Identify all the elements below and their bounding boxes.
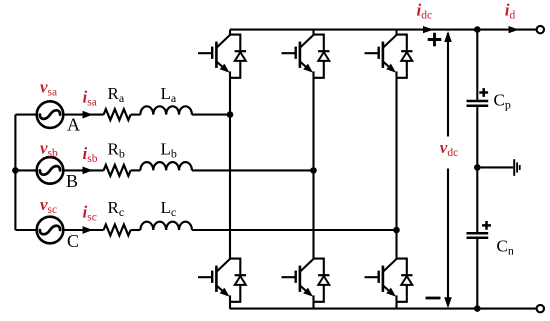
capacitor Cp (467, 101, 489, 106)
IGBT lower leg B with antiparallel diode (282, 259, 330, 302)
AC source Vsc circle (37, 217, 64, 244)
vdc arrow line lower (447, 169, 449, 307)
wire bus to source B (15, 169, 36, 171)
svg-text:Lb: Lb (161, 140, 177, 161)
wire Ra to La (131, 114, 141, 116)
ground (513, 159, 515, 176)
leg A mid stem (229, 78, 231, 259)
wire midpoint to Cn (476, 167, 478, 232)
wire top rail to Cp (476, 30, 478, 100)
svg-text:isc: isc (83, 203, 97, 224)
wire Cn to bottom rail (476, 239, 478, 309)
AC source Vsb circle (37, 157, 64, 184)
svg-text:A: A (67, 115, 80, 135)
wire source A to Ra (63, 114, 103, 116)
resistor Ra (104, 109, 131, 120)
node C junction dot (393, 227, 400, 234)
capacitor Cn (467, 233, 489, 238)
vdc arrow line upper (447, 33, 449, 137)
IGBT upper leg A with antiparallel diode (198, 35, 246, 78)
vdc arrowhead up (444, 31, 452, 42)
wire Rb to Lb (131, 169, 141, 171)
wire bus to source A (15, 114, 36, 116)
wire Lc to leg C (192, 229, 397, 231)
svg-text:C: C (67, 231, 79, 251)
IGBT lower leg C with antiparallel diode (365, 259, 413, 302)
svg-text:Cn: Cn (497, 237, 514, 258)
plus sign Cp (479, 88, 488, 97)
wire Rc to Lc (131, 229, 141, 231)
resistor Rb (104, 165, 131, 176)
arrow isc (83, 226, 93, 234)
svg-text:isb: isb (83, 144, 98, 165)
node B junction dot (310, 167, 317, 174)
leg A bottom stem (229, 302, 231, 309)
leg B bottom stem (312, 302, 314, 309)
inductor La (140, 106, 192, 114)
sine glyph Vsc (40, 226, 60, 235)
wire source C to Rc (63, 229, 103, 231)
wire Cp to midpoint (476, 107, 478, 167)
svg-text:Cp: Cp (494, 91, 511, 112)
inductor Lb (140, 162, 192, 170)
svg-text:B: B (66, 171, 78, 191)
svg-text:id: id (505, 1, 516, 22)
svg-text:idc: idc (417, 1, 433, 22)
wire source B to Rb (63, 169, 103, 171)
arrow id on top rail (509, 26, 520, 33)
arrow idc on top rail (423, 26, 434, 33)
inductor Lc (140, 222, 192, 230)
svg-text:Ra: Ra (108, 84, 125, 105)
arrow isa (83, 111, 93, 119)
terminal bottom output circle (537, 305, 544, 312)
leg B top stem (312, 30, 314, 35)
svg-text:vsb: vsb (40, 139, 58, 160)
svg-text:isa: isa (83, 88, 97, 109)
vdc arrowhead down (444, 297, 452, 308)
wire midpoint to ground (477, 166, 513, 168)
plus sign Cn (482, 221, 491, 230)
terminal top output circle (537, 26, 544, 33)
IGBT upper leg C with antiparallel diode (365, 35, 413, 78)
wire Lb to leg B (192, 169, 314, 171)
node bottom rail dot (474, 305, 481, 312)
sine glyph Vsb (40, 166, 60, 175)
AC source Vsa circle (37, 101, 64, 128)
node: bus junction dot (12, 167, 19, 174)
svg-text:La: La (161, 84, 177, 105)
svg-text:Rb: Rb (108, 140, 125, 161)
leg A top stem (229, 30, 231, 35)
svg-text:Lc: Lc (161, 198, 177, 219)
leg B mid stem (312, 78, 314, 259)
node A junction dot (227, 111, 234, 118)
left AC bus wire (14, 115, 16, 230)
sine glyph Vsa (40, 110, 60, 119)
top DC rail (230, 29, 536, 31)
leg C mid stem (395, 78, 397, 259)
node top rail to Cp dot (474, 26, 481, 33)
svg-text:Rc: Rc (108, 198, 125, 219)
svg-text:vsa: vsa (40, 78, 57, 99)
bottom DC rail (230, 308, 537, 310)
leg C bottom stem (395, 302, 397, 309)
IGBT upper leg B with antiparallel diode (282, 35, 330, 78)
leg C top stem (395, 30, 397, 35)
wire La to leg A (192, 114, 230, 116)
minus sign bottom (426, 297, 441, 300)
svg-text:vsc: vsc (40, 195, 57, 216)
IGBT lower leg A with antiparallel diode (198, 259, 246, 302)
svg-text:vdc: vdc (440, 138, 458, 159)
wire bus to source C (15, 229, 36, 231)
node capacitor midpoint dot (474, 164, 481, 171)
arrow isb (83, 167, 93, 175)
resistor Rc (104, 225, 131, 236)
plus sign top (428, 33, 442, 47)
